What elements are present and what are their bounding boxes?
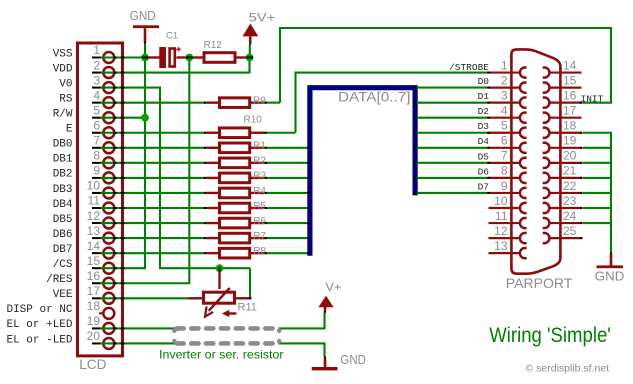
resistor R4	[206, 188, 264, 198]
svg-text:12: 12	[494, 224, 508, 238]
svg-text:DATA[0..7]: DATA[0..7]	[338, 90, 411, 105]
PARPORT pin 1 number	[501, 58, 508, 72]
svg-text:3: 3	[93, 73, 100, 87]
LCD pin 7 label DB0	[53, 139, 73, 151]
LCD name label	[79, 356, 106, 372]
5V+ symbol	[243, 24, 259, 58]
resistor R5	[206, 203, 264, 213]
svg-text:15: 15	[563, 73, 577, 87]
PARPORT pin 9 name D7	[478, 181, 489, 192]
PARPORT pin 16 contact	[543, 98, 582, 108]
PARPORT pin 1 contact	[489, 67, 527, 77]
PARPORT pin 24 contact	[543, 218, 582, 228]
PARPORT pin 25 contact	[543, 233, 582, 243]
wire VSS pin1 to GND junction	[101, 56, 145, 58]
svg-text:19: 19	[563, 134, 577, 148]
R12 label	[204, 40, 223, 51]
LCD pin 9 contact	[92, 172, 114, 183]
svg-text:14: 14	[563, 58, 577, 72]
svg-text:C1: C1	[166, 31, 178, 42]
svg-text:D1: D1	[478, 91, 490, 102]
svg-text:VDD: VDD	[53, 63, 73, 75]
svg-text:2: 2	[93, 58, 100, 72]
LCD pin 14 contact	[92, 248, 114, 259]
PARPORT pin 8 number	[501, 164, 508, 178]
PARPORT pin 23 number	[563, 194, 577, 208]
PARPORT pin 17 contact	[543, 113, 582, 123]
LCD pin 9 number	[93, 164, 100, 178]
resistor R3	[206, 173, 264, 183]
svg-text:Inverter or ser. resistor: Inverter or ser. resistor	[159, 348, 284, 362]
PARPORT pin 6 name D4	[478, 136, 490, 147]
wire bus to parport D5	[415, 162, 488, 164]
PARPORT pin 8 contact	[489, 173, 527, 183]
svg-text:10: 10	[87, 179, 101, 193]
wire DB6 pin13 to R7	[101, 237, 206, 239]
R2 label	[253, 156, 266, 167]
wire EL- pin20 to inverter	[101, 342, 176, 344]
LCD pin 18 contact	[99, 308, 114, 319]
LCD pin 19 label EL or +LED	[6, 319, 72, 331]
svg-text:D6: D6	[478, 166, 490, 177]
PARPORT pin 20 number	[563, 149, 577, 163]
LCD pin 1 contact	[92, 52, 114, 63]
R6 label	[253, 216, 266, 227]
svg-text:17: 17	[563, 104, 577, 118]
5V+ label	[249, 12, 276, 24]
wire E pin6 to R10	[101, 132, 206, 134]
R11 label	[238, 301, 257, 313]
C1 label	[166, 31, 178, 42]
resistor R2	[206, 158, 264, 168]
GND label (bottom middle)	[340, 353, 366, 367]
R7 label	[253, 231, 266, 242]
svg-text:D5: D5	[478, 151, 490, 162]
LCD pin 14 number	[87, 239, 101, 253]
LCD pin 2 label VDD	[53, 63, 73, 75]
V+ label	[325, 280, 341, 294]
wire strobe to parport pin1	[295, 72, 488, 74]
PARPORT pin 3 number	[501, 88, 508, 102]
svg-text:13: 13	[494, 239, 508, 253]
LCD pin 11 contact	[92, 203, 114, 214]
PARPORT pin 12 contact	[489, 233, 527, 243]
PARPORT connector outline	[511, 49, 560, 273]
wire bus to parport D0	[415, 87, 488, 89]
svg-text:EL or -LED: EL or -LED	[6, 334, 72, 346]
svg-text:8: 8	[501, 164, 508, 178]
LCD pin 6 label E	[66, 124, 73, 136]
svg-text:PARPORT: PARPORT	[506, 275, 573, 291]
svg-text:4: 4	[93, 88, 100, 102]
wire DB3 pin10 to R4	[101, 192, 206, 194]
svg-text:INIT: INIT	[581, 93, 604, 104]
svg-text:22: 22	[563, 179, 577, 193]
wire R/W pin5 to GND line	[101, 117, 146, 119]
wire bus to parport D2	[415, 117, 488, 119]
svg-text:3: 3	[501, 88, 508, 102]
wire R10 to strobe riser	[266, 132, 296, 134]
svg-text:DB4: DB4	[53, 199, 73, 211]
svg-text:R4: R4	[253, 186, 266, 197]
xor crossing blips	[113, 57, 582, 345]
PARPORT pin 21 contact	[543, 173, 582, 183]
svg-text:D7: D7	[478, 181, 489, 192]
svg-text:20: 20	[563, 149, 577, 163]
svg-text:9: 9	[501, 179, 508, 193]
resistor R8	[206, 248, 264, 258]
svg-text:7: 7	[501, 149, 508, 163]
data bus label	[338, 90, 411, 105]
PARPORT pin 19 number	[563, 134, 577, 148]
LCD pin 4 contact	[92, 97, 114, 108]
title Wiring 'Simple'	[489, 324, 611, 347]
PARPORT pin 13 contact	[489, 248, 527, 258]
LCD pin 5 contact	[92, 112, 114, 123]
wire bus to parport D6	[415, 177, 488, 179]
V+ symbol	[318, 296, 333, 314]
LCD pin 8 contact	[92, 157, 114, 168]
svg-text:20: 20	[87, 329, 101, 343]
svg-text:2: 2	[501, 73, 508, 87]
PARPORT pin 7 name D5	[478, 151, 490, 162]
svg-text:19: 19	[87, 314, 101, 328]
wire R3 to data bus	[266, 177, 309, 179]
junction 5V+/R12/VDD	[246, 54, 254, 62]
capacitor C1	[144, 47, 187, 68]
PARPORT pin 16 number	[563, 88, 577, 102]
svg-text:/RES: /RES	[46, 274, 73, 286]
LCD pin 13 contact	[92, 233, 114, 244]
LCD pin 3 contact	[92, 82, 114, 93]
LCD pin 2 number	[93, 58, 100, 72]
LCD pin 17 number	[87, 284, 101, 298]
PARPORT pin 10 contact	[489, 203, 527, 213]
GND symbol (top)	[133, 25, 159, 44]
wire DB7 pin14 to R8	[101, 252, 206, 254]
wire top net to INIT	[279, 27, 612, 29]
LCD pin 15 number	[87, 254, 101, 268]
svg-text:DB6: DB6	[53, 229, 73, 241]
svg-text:EL or +LED: EL or +LED	[6, 319, 72, 331]
svg-text:10: 10	[494, 194, 508, 208]
PARPORT pin 15 number	[563, 73, 577, 87]
PARPORT pin 22 contact	[543, 188, 582, 198]
LCD pin 14 label DB7	[53, 244, 73, 256]
R5 label	[253, 201, 266, 212]
LCD pin 16 label /RES	[46, 274, 73, 286]
svg-text:24: 24	[563, 209, 577, 223]
svg-text:16: 16	[563, 88, 577, 102]
wire DB0 pin7 to R1	[101, 147, 206, 149]
svg-text:DB0: DB0	[53, 139, 73, 151]
svg-text:VEE: VEE	[53, 289, 73, 301]
wire parport pin21 to GND riser	[583, 177, 611, 179]
LCD pin 4 number	[93, 88, 100, 102]
LCD pin 12 label DB5	[53, 214, 73, 226]
wire GND riser lower end	[610, 237, 612, 252]
wire R1 to data bus	[266, 147, 309, 149]
wire DB5 pin12 to R6	[101, 222, 206, 224]
PARPORT pin 15 contact	[543, 83, 582, 93]
svg-text:E: E	[66, 124, 73, 136]
PARPORT pin 12 number	[494, 224, 508, 238]
LCD pin 17 label VEE	[53, 289, 73, 301]
LCD pin 17 contact	[92, 293, 114, 304]
LCD pin 11 number	[88, 194, 101, 208]
PARPORT pin 18 number	[563, 119, 577, 133]
LCD pin 10 contact	[92, 187, 114, 198]
PARPORT pin 5 name D3	[478, 121, 490, 132]
svg-text:RS: RS	[59, 93, 73, 105]
svg-text:R10: R10	[244, 115, 263, 126]
svg-text:R5: R5	[253, 201, 266, 212]
PARPORT pin 3 name D1	[478, 91, 490, 102]
wire R5 to data bus	[266, 207, 309, 209]
svg-text:R9: R9	[253, 96, 266, 107]
wire bus to parport D3	[415, 132, 488, 134]
wire R2 to data bus	[266, 162, 309, 164]
wire DB2 pin9 to R3	[101, 177, 206, 179]
LCD pin 18 number	[87, 299, 101, 313]
wire INIT drop	[610, 27, 612, 103]
resistor R7	[206, 233, 264, 243]
LCD pin 20 number	[87, 329, 101, 343]
wire DB1 pin8 to R2	[101, 162, 206, 164]
R8 label	[253, 246, 266, 257]
svg-text:23: 23	[563, 194, 577, 208]
PARPORT pin 8 name D6	[478, 166, 490, 177]
PARPORT pin 6 number	[501, 134, 508, 148]
LCD pin 7 number	[93, 134, 100, 148]
R3 label	[253, 171, 266, 182]
svg-text:25: 25	[563, 224, 577, 238]
LCD pin 3 number	[93, 73, 100, 87]
LCD pin 10 number	[87, 179, 101, 193]
wire INIT to parport pin16	[583, 102, 612, 104]
svg-text:12: 12	[87, 209, 101, 223]
svg-text:V0: V0	[59, 78, 72, 90]
svg-text:4: 4	[501, 104, 508, 118]
svg-text:Wiring 'Simple': Wiring 'Simple'	[489, 324, 611, 347]
svg-text:DB3: DB3	[53, 184, 73, 196]
PARPORT pin 19 contact	[543, 143, 582, 153]
svg-text:GND: GND	[340, 353, 366, 367]
junction V0/wiper node	[216, 264, 224, 272]
svg-text:D4: D4	[478, 136, 490, 147]
resistor R12	[188, 53, 248, 63]
PARPORT pin 18 contact	[543, 128, 582, 138]
PARPORT pin 4 name D2	[478, 106, 490, 117]
LCD pin 20 label EL or -LED	[6, 334, 72, 346]
PARPORT pin 2 number	[501, 73, 508, 87]
LCD pin 10 label DB3	[53, 184, 73, 196]
wire RS riser to top	[279, 28, 281, 103]
svg-text:5V+: 5V+	[249, 12, 276, 24]
inverter label	[159, 348, 284, 362]
wire VDD pin2 to 5V corner	[101, 58, 250, 73]
junction C1/R12/reset node	[185, 54, 193, 62]
svg-text:11: 11	[88, 194, 101, 208]
svg-text:GND: GND	[130, 8, 156, 23]
svg-text:5: 5	[93, 103, 100, 117]
PARPORT pin 25 number	[563, 224, 577, 238]
resistor R6	[206, 218, 264, 228]
LCD pin 8 label DB1	[53, 154, 73, 166]
wire bus to parport D4	[415, 147, 488, 149]
inverter-or-series-resistor dashed box	[174, 328, 279, 343]
wire R9 to riser	[266, 102, 281, 104]
LCD pin 18 label DISP or NC	[6, 304, 72, 316]
svg-text:/CS: /CS	[53, 259, 73, 271]
svg-text:R/W: R/W	[53, 109, 73, 121]
GND label (right)	[595, 270, 625, 284]
wire inverter to GND corner	[279, 343, 325, 357]
PARPORT pin 11 number	[495, 209, 508, 223]
wire GND vertical	[144, 44, 146, 269]
svg-text:R3: R3	[253, 171, 266, 182]
wire bus to parport D1	[415, 102, 488, 104]
GND symbol (bottom middle)	[312, 356, 338, 370]
svg-text:5: 5	[501, 119, 508, 133]
PARPORT pin 14 number	[563, 58, 577, 72]
svg-text:D0: D0	[478, 76, 490, 87]
credit serdisplib	[526, 362, 610, 374]
PARPORT pin 13 number	[494, 239, 508, 253]
PARPORT pin 7 number	[501, 149, 508, 163]
LCD pin 15 label /CS	[53, 259, 73, 271]
PARPORT pin 2 contact	[489, 83, 527, 93]
svg-text:14: 14	[87, 239, 101, 253]
wire R6 to data bus	[266, 222, 309, 224]
R1 label	[253, 141, 266, 152]
svg-text:GND: GND	[595, 270, 625, 284]
PARPORT pin 3 contact	[489, 98, 527, 108]
PARPORT pin 17 number	[563, 104, 577, 118]
svg-text:11: 11	[495, 209, 508, 223]
wire RS pin4 to R9	[101, 102, 206, 104]
PARPORT name label	[506, 275, 573, 291]
svg-text:R7: R7	[253, 231, 266, 242]
PARPORT pin 4 number	[501, 104, 508, 118]
LCD pin 12 number	[87, 209, 101, 223]
LCD pin 16 number	[87, 269, 101, 283]
svg-text:1: 1	[93, 43, 100, 57]
svg-text:R12: R12	[204, 40, 223, 51]
LCD pin 13 number	[87, 224, 101, 238]
LCD pin 9 label DB2	[53, 169, 73, 181]
PARPORT pin 11 contact	[489, 218, 527, 228]
svg-text:V+: V+	[325, 280, 341, 294]
wire V0 riser	[159, 88, 161, 269]
PARPORT pin 5 number	[501, 119, 508, 133]
LCD pin 5 number	[93, 103, 100, 117]
svg-text:17: 17	[87, 284, 101, 298]
GND symbol (right)	[597, 251, 624, 268]
wire V0 to pot junction	[159, 267, 250, 269]
svg-text:LCD: LCD	[79, 356, 106, 372]
svg-text:7: 7	[93, 134, 100, 148]
PARPORT pin 21 number	[563, 164, 577, 178]
LCD pin 1 number	[93, 43, 100, 57]
svg-text:R8: R8	[253, 246, 266, 257]
svg-text:6: 6	[501, 134, 508, 148]
PARPORT pin 9 number	[501, 179, 508, 193]
wire V0 down to pot right	[244, 268, 250, 298]
wire parport pin20 to GND riser	[583, 162, 611, 164]
svg-text:© serdisplib.sf.net: © serdisplib.sf.net	[526, 362, 610, 374]
LCD pin 1 label VSS	[53, 48, 73, 60]
R10 label	[244, 115, 263, 126]
PARPORT pin 1 name /STROBE	[449, 62, 489, 73]
wire /CS pin15 to GND vertical	[101, 267, 147, 269]
svg-text:6: 6	[93, 118, 100, 132]
svg-text:/STROBE: /STROBE	[449, 62, 489, 73]
PARPORT pin 23 contact	[543, 203, 582, 213]
svg-text:DB5: DB5	[53, 214, 73, 226]
LCD pin 13 label DB6	[53, 229, 73, 241]
svg-text:DB7: DB7	[53, 244, 73, 256]
R4 label	[253, 186, 266, 197]
wire V0 pin3 to riser	[101, 87, 162, 89]
wire DB4 pin11 to R5	[101, 207, 206, 209]
wire strobe riser	[294, 73, 296, 133]
LCD pin 6 contact	[92, 127, 114, 138]
svg-text:D2: D2	[478, 106, 490, 117]
PARPORT pin 7 contact	[489, 158, 527, 168]
svg-text:DB1: DB1	[53, 154, 73, 166]
LCD pin 4 label RS	[59, 93, 73, 105]
svg-text:9: 9	[93, 164, 100, 178]
svg-text:18: 18	[563, 119, 577, 133]
svg-text:21: 21	[563, 164, 577, 178]
svg-text:R1: R1	[253, 141, 266, 152]
svg-text:8: 8	[93, 149, 100, 163]
LCD pin 5 label R/W	[53, 109, 73, 121]
PARPORT pin 4 contact	[489, 113, 527, 123]
PARPORT pin 5 contact	[489, 128, 527, 138]
svg-text:R11: R11	[238, 301, 257, 313]
svg-text:1: 1	[501, 58, 508, 72]
LCD pin 2 contact	[92, 67, 114, 78]
svg-text:R2: R2	[253, 156, 266, 167]
wire R7 to data bus	[266, 237, 309, 239]
PARPORT pin 24 number	[563, 209, 577, 223]
svg-text:D3: D3	[478, 121, 490, 132]
PARPORT pin 6 contact	[489, 143, 527, 153]
svg-text:VSS: VSS	[53, 48, 73, 60]
wire parport pin22 to GND riser	[583, 192, 611, 194]
svg-text:R6: R6	[253, 216, 266, 227]
data bus DATA[0..7]	[310, 88, 415, 256]
wire EL+ pin19 to inverter	[101, 327, 176, 329]
wire bus to parport D7	[415, 192, 488, 194]
wire VEE pin17 to R11	[101, 297, 190, 299]
PARPORT pin 20 contact	[543, 158, 582, 168]
PARPORT pin 2 name D0	[478, 76, 490, 87]
PARPORT pin 9 contact	[489, 188, 527, 198]
LCD pin 15 contact	[92, 263, 114, 274]
LCD pin 8 number	[93, 149, 100, 163]
wire inverter to V+ corner	[279, 312, 325, 328]
LCD connector body	[78, 43, 123, 356]
svg-text:15: 15	[87, 254, 101, 268]
LCD pin 19 contact	[92, 323, 114, 334]
potentiometer R11	[189, 271, 250, 318]
LCD pin 19 number	[87, 314, 101, 328]
junction GND/RW	[141, 114, 149, 122]
wire parport pin24 to GND riser	[583, 222, 611, 224]
